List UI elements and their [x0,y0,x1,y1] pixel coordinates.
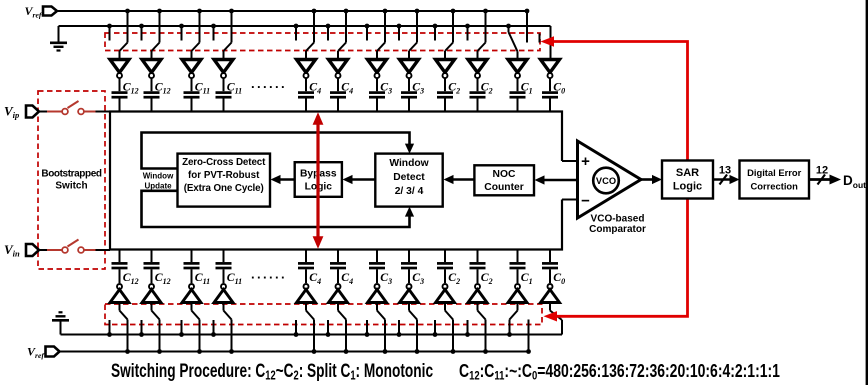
switch top C4a [294,9,317,59]
switch top C0b [540,26,551,59]
switch top C3b [397,9,420,59]
switch bottom C4a [294,303,317,354]
wire red SAR feedback [541,36,688,321]
wire gnd bottom rail [61,334,563,336]
driver inverter bottom C11 [214,284,233,303]
svg-text:Bootstrapped: Bootstrapped [41,169,101,180]
driver inverter bottom C0 [541,284,560,303]
wire Window Detect to Bypass Logic [343,175,376,184]
node sampling box (DAC top/bottom plates) [110,112,562,250]
top switch-array dashed red box [105,33,540,51]
wire comparator to SAR [641,175,662,184]
switch top C2a [433,9,456,59]
wire Vref bottom rail [60,351,529,353]
capacitor C4 (bottom) [298,250,321,286]
svg-text:C2: C2 [481,270,493,286]
bootstrapped-switch dashed red box [38,91,105,269]
driver inverter top C11 [214,60,233,79]
svg-text:2/ 3/ 4: 2/ 3/ 4 [395,186,424,197]
svg-text:C2: C2 [481,80,493,96]
node caption switching procedure [111,361,433,383]
capacitor C2 (bottom) [437,250,460,286]
svg-text:C1: C1 [521,270,533,286]
capacitor C1 (top) [510,78,533,111]
svg-text:VCO-based: VCO-based [591,214,645,225]
driver inverter bottom C2 [468,284,487,303]
capacitor C3 (bottom) [401,250,424,286]
switch top C1a [506,9,529,59]
svg-text:Correction: Correction [750,181,798,192]
port Vip [26,106,39,118]
svg-text:Vref: Vref [25,4,43,19]
capacitor C11 (bottom) [184,250,211,286]
switch top C2b [465,9,488,59]
capacitor C3 (top) [369,78,392,111]
svg-text:Logic: Logic [673,181,702,193]
svg-text:C4: C4 [341,270,353,286]
svg-text:+: + [581,153,590,170]
svg-text:Switch: Switch [55,181,87,192]
capacitor C12 (bottom) [112,250,139,286]
svg-text:Dout: Dout [843,173,866,190]
driver inverter bottom C3 [400,284,419,303]
svg-text:Window: Window [389,158,429,169]
svg-text:C11: C11 [195,80,210,96]
svg-text:C12: C12 [155,80,171,96]
capacitor C2 (top) [470,78,493,111]
svg-text:NOC: NOC [493,169,516,180]
svg-text:(Extra One Cycle): (Extra One Cycle) [184,183,264,194]
block U3 Window Detect [375,154,442,207]
wire red double arrow (cal path) [313,112,324,249]
svg-text:C0: C0 [553,80,565,96]
driver inverter top C3 [368,60,387,79]
svg-text:VCO: VCO [596,176,616,186]
driver inverter top C12 [142,60,161,79]
node Vip label [4,104,19,121]
switch bottom C11a [179,303,202,354]
switch top C11a [179,9,202,59]
wire SAR to DEC bus 13 [713,165,740,185]
driver inverter top C11 [182,60,201,79]
node Vref label (bottom) [27,345,45,360]
array continuation dots (top) [251,76,287,91]
svg-text:Window: Window [143,172,174,181]
switch bottom C12a [107,303,130,354]
switch bottom C11b [211,303,234,354]
capacitor C0 (top) [542,78,565,111]
switch top C12a [107,9,130,59]
driver inverter top C2 [468,60,487,79]
svg-text:Vin: Vin [4,242,20,259]
capacitor C12 (top) [112,78,139,111]
driver inverter bottom C4 [329,284,348,303]
driver inverter top C2 [436,60,455,79]
switch bottom C1a [507,303,531,354]
wire Bypass Logic to Zero-Cross [271,175,295,184]
capacitor C3 (top) [401,78,424,111]
switch bootstrapped (Vin) [47,240,96,253]
svg-text:C3: C3 [412,270,424,286]
svg-text:C2: C2 [448,270,460,286]
wire NOC Counter to Window Detect [444,175,475,184]
capacitor C0 (bottom) [542,250,565,286]
wire comparator - input [562,199,578,201]
svg-text:C4: C4 [309,270,321,286]
switch bottom C0b [550,303,562,335]
svg-text:......: ...... [251,267,287,282]
node SAR Logic label [673,167,702,193]
svg-text:C11: C11 [195,270,210,286]
svg-text:C12: C12 [123,270,139,286]
svg-text:C3: C3 [380,270,392,286]
wire gnd top rail [59,25,551,27]
svg-text:C3: C3 [412,80,424,96]
port Vin [26,244,39,256]
svg-text:......: ...... [251,76,287,91]
svg-text:13: 13 [719,165,731,177]
wire window-update lower feedback [142,191,415,227]
wire VCO to NOC Counter [535,175,594,184]
svg-text:C4: C4 [309,80,321,96]
capacitor C12 (bottom) [144,250,171,286]
capacitor C11 (top) [184,78,211,111]
svg-text:Vip: Vip [4,104,19,121]
node Vin label [4,242,20,259]
svg-text:Counter: Counter [484,182,523,193]
switch bottom C12b [139,303,162,354]
wire window-update upper feedback [142,133,415,169]
svg-text:Zero-Cross Detect: Zero-Cross Detect [182,157,266,168]
block U5 SAR Logic [662,161,713,199]
driver inverter top C4 [297,60,316,79]
svg-text:C12: C12 [155,270,171,286]
port Vref (bottom) [46,347,60,357]
driver inverter top C1 [508,60,527,79]
wire DEC to Dout bus 12 [809,165,841,185]
switch bottom C4b [326,303,349,354]
svg-text:C12: C12 [123,80,139,96]
svg-text:Comparator: Comparator [589,224,646,235]
capacitor C4 (top) [330,78,353,111]
capacitor C4 (bottom) [330,250,353,286]
switch bottom C3b [397,303,420,354]
switch bottom C3a [365,303,388,354]
switch top C4b [326,9,349,59]
array continuation dots (bottom) [251,267,287,282]
svg-text:−: − [581,193,590,210]
node Bootstrapped Switch label [41,169,101,192]
svg-text:C4: C4 [341,80,353,96]
svg-text:Vref: Vref [27,345,45,360]
driver inverter top C12 [110,60,129,79]
svg-text:C0: C0 [553,270,565,286]
capacitor C4 (top) [298,78,321,111]
svg-text:SAR: SAR [676,167,699,179]
driver inverter bottom C12 [142,284,161,303]
svg-text:C11: C11 [227,80,242,96]
wire comparator + input [562,160,578,162]
capacitor C3 (bottom) [369,250,392,286]
node Dout label [843,173,866,190]
switch top C11b [211,9,234,59]
wire Vref top rail [57,10,527,12]
switch top C3a [365,9,388,59]
bottom switch-array dashed red box [105,304,542,325]
wire Vip to bootstrapped switch [39,111,110,113]
svg-text:C11: C11 [227,270,242,286]
block U2 Bypass Logic [295,162,342,197]
ground (top) [50,26,67,51]
driver inverter bottom C4 [297,284,316,303]
driver inverter top C0 [541,60,560,79]
svg-text:Digital Error: Digital Error [747,167,802,178]
capacitor C1 (bottom) [510,250,533,286]
driver inverter bottom C2 [436,284,455,303]
driver inverter bottom C11 [182,284,201,303]
node Vref label (top) [25,4,43,19]
block U6 Digital Error Correction [740,161,810,199]
svg-text:for PVT-Robust: for PVT-Robust [188,170,260,181]
driver inverter bottom C12 [110,284,129,303]
node Window Update label [143,172,174,191]
svg-text:C3: C3 [380,80,392,96]
capacitor C11 (top) [216,78,243,111]
driver inverter bottom C3 [368,284,387,303]
svg-text:12: 12 [816,165,828,177]
svg-text:C2: C2 [448,80,460,96]
svg-text:Detect: Detect [393,172,425,183]
block U4 NOC Counter [474,165,534,195]
svg-text:Update: Update [144,182,172,191]
capacitor C11 (bottom) [216,250,243,286]
ground (bottom, inverted) [52,312,69,334]
switch bootstrapped (Vip) [47,101,96,114]
op-amp VCO-based comparator [578,141,642,218]
driver inverter bottom C1 [508,284,527,303]
node VCO-based Comparator label [589,214,646,236]
svg-text:C1: C1 [521,80,533,96]
switch bottom C2a [433,303,456,354]
port Vref (top) [43,7,57,16]
driver inverter top C3 [400,60,419,79]
switch top C12b [139,9,162,59]
block U1 Zero-Cross Detect [178,154,271,207]
capacitor C2 (bottom) [470,250,493,286]
driver inverter top C4 [329,60,348,79]
node caption capacitor ratios [459,361,780,383]
capacitor C2 (top) [437,78,460,111]
capacitor C12 (top) [144,78,171,111]
wire Vin to bootstrapped switch [39,249,110,251]
switch bottom C2b [465,303,488,354]
